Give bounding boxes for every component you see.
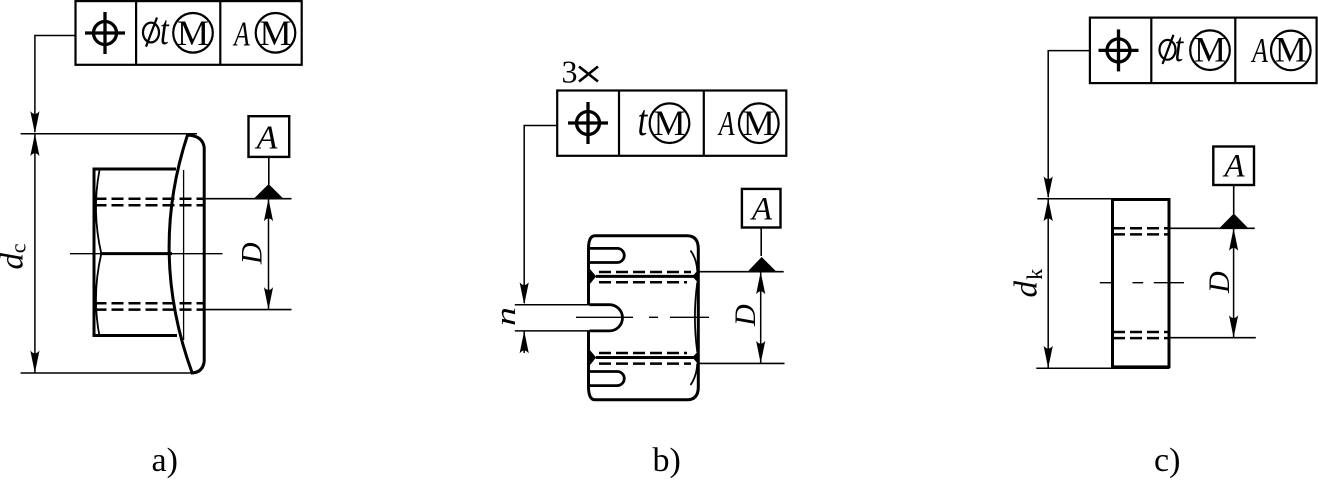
datum leader c [1233,185,1235,214]
svg-text:t: t [1175,25,1185,71]
n lower arrow tail [523,331,525,353]
svg-text:D: D [236,242,269,265]
datum leader b [760,228,762,257]
bottom slot b [589,372,625,386]
lower surface line a [206,309,292,311]
top extension line a [21,133,197,135]
nut a chamfer arc lower [96,254,101,336]
thread hidden lines a [95,199,205,310]
svg-text:A: A [750,192,773,228]
center line c [1100,282,1184,284]
datum ref circle M b [739,103,779,143]
nut b right cusp lower [692,352,697,364]
upper surface line c [1170,227,1255,229]
FCF b divider 1 [618,91,620,156]
thread hidden lines c [1113,228,1169,338]
D dimension line c [1233,228,1235,337]
datum ref circle M c [1271,31,1311,71]
nut b right chamfer arcs [691,251,698,386]
top slot b [589,248,625,262]
dk dimension line c [1047,199,1049,368]
middle slot b [590,305,623,331]
position symbol b [568,102,608,144]
svg-text:b): b) [653,442,681,479]
center line b [576,316,709,318]
lower surface line b [699,362,785,364]
datum ref circle M a [256,13,296,53]
D dimension line a [268,199,270,310]
leader arrow a [30,111,39,134]
leader from FCF b [524,126,557,304]
nut b outline [589,236,699,400]
position symbol c [1099,29,1139,71]
leader from FCF c [1048,51,1090,197]
D label c [1203,271,1236,294]
datum triangle b [748,257,777,272]
svg-text:M: M [743,103,775,143]
dk top arrow [1044,199,1053,222]
nut a chamfer arc upper [96,170,101,254]
nut a top edge [93,168,177,171]
datum box b [742,189,781,228]
svg-text:a): a) [152,442,178,479]
svg-text:d: d [0,253,31,270]
svg-text:A: A [1251,31,1269,70]
D dimension line b [760,272,762,364]
tolerance circle M a [173,13,213,53]
upper surface line a [206,198,292,200]
upper surface line b [699,271,784,273]
datum leader a [268,157,270,185]
FCF b divider 2 [703,91,705,156]
tolerance circle M c [1190,30,1230,70]
nut b face boundary upper [596,275,694,278]
n lower extension line [515,330,590,332]
svg-text:c): c) [1154,442,1180,479]
FCF c divider 1 [1150,18,1152,84]
dk bottom arrow [1044,346,1053,369]
nut b right cusp upper [692,271,697,283]
D arrows b [756,272,765,295]
datum box c [1213,147,1254,186]
svg-text:t: t [638,95,649,145]
svg-text:d: d [1009,281,1045,298]
FCF c divider 2 [1234,18,1236,84]
nut hex body a: left edge [93,168,96,338]
datum box a [249,116,290,157]
n label [490,307,522,326]
svg-text:t: t [160,8,170,54]
svg-text:c: c [5,243,30,253]
D arrows c [1229,228,1238,251]
feature control frame a: outer box [76,1,302,65]
svg-text:M: M [1194,30,1226,70]
datum triangle a [254,184,284,199]
svg-text:n: n [490,307,522,326]
position symbol a [85,12,125,54]
nut a hex face boundary [100,252,172,255]
svg-text:A: A [255,120,278,157]
nut b left cusp upper [590,269,597,285]
FCF a cell divider 1 [135,1,137,65]
thread hidden lines b [599,272,691,364]
flange outline a [169,135,204,373]
phi symbol c [1160,35,1176,64]
svg-text:A: A [717,104,735,143]
svg-text:M: M [653,103,685,143]
datum triangle c [1219,214,1248,229]
n lower arrow (up) [520,331,529,354]
phi symbol a [143,18,159,47]
svg-text:D: D [1203,271,1236,294]
nut a bottom edge [93,334,178,337]
top extension line c [1037,198,1169,200]
bottom extension line a [21,372,196,374]
D label a [236,242,269,265]
D arrows a [264,199,273,222]
n leader arrow (down) [520,282,529,305]
svg-text:M: M [259,13,291,53]
tolerance circle M b [650,103,690,143]
n upper extension line [515,304,590,306]
svg-text:k: k [1022,269,1047,280]
svg-text:3: 3 [562,54,578,90]
svg-text:M: M [1275,30,1307,70]
dc label [0,243,31,269]
svg-text:M: M [177,13,209,53]
feature control frame b: outer box [557,91,786,156]
nut c rectangle [1113,200,1170,367]
leader arrow c [1044,176,1053,199]
svg-text:A: A [232,14,250,53]
nut b left cusp lower [590,350,597,366]
nut b face boundary lower [596,356,694,359]
svg-text:D: D [729,304,762,327]
svg-text:A: A [1222,149,1245,185]
D label b [729,304,762,327]
bottom extension line c [1036,367,1169,369]
dc top arrow [30,134,39,157]
feature control frame c: outer box [1090,18,1317,84]
dc bottom arrow [30,351,39,374]
dc dimension line a [34,134,36,373]
leader from FCF a [35,36,76,133]
flange face line a [183,170,185,340]
lower surface line c [1170,337,1256,339]
FCF a cell divider 2 [219,1,221,65]
dk label [1009,269,1047,298]
center line a [70,253,223,255]
